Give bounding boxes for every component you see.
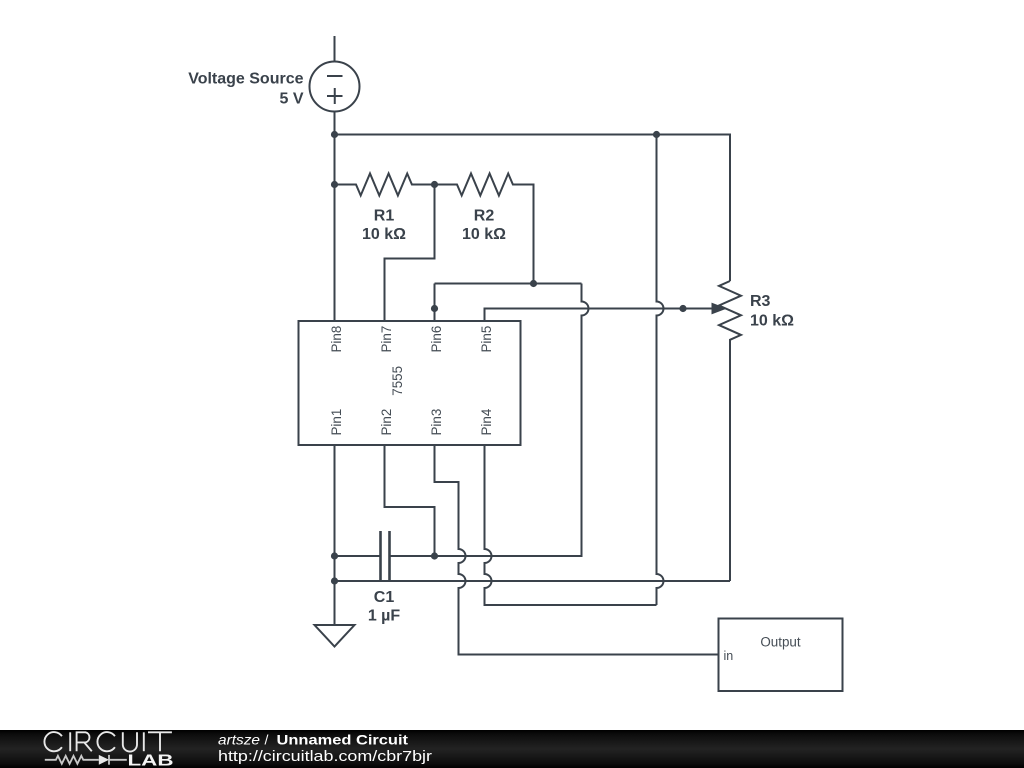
svg-text:artsze: artsze bbox=[218, 732, 260, 748]
svg-text:/: / bbox=[265, 732, 269, 748]
svg-text:Unnamed Circuit: Unnamed Circuit bbox=[277, 732, 409, 748]
svg-text:Pin8: Pin8 bbox=[329, 326, 344, 353]
svg-text:Pin6: Pin6 bbox=[429, 326, 444, 353]
svg-text:Pin7: Pin7 bbox=[379, 326, 394, 353]
svg-text:1 µF: 1 µF bbox=[368, 608, 401, 625]
svg-text:Voltage Source: Voltage Source bbox=[188, 71, 303, 88]
svg-text:R3: R3 bbox=[750, 293, 771, 310]
svg-text:7555: 7555 bbox=[390, 366, 405, 396]
svg-text:Pin4: Pin4 bbox=[479, 408, 494, 435]
svg-text:10 kΩ: 10 kΩ bbox=[462, 226, 506, 243]
svg-text:10 kΩ: 10 kΩ bbox=[362, 226, 406, 243]
svg-text:Output: Output bbox=[760, 635, 800, 650]
svg-text:LAB: LAB bbox=[128, 753, 174, 768]
svg-text:R2: R2 bbox=[474, 208, 495, 225]
svg-text:in: in bbox=[724, 649, 734, 663]
svg-text:Pin5: Pin5 bbox=[479, 326, 494, 353]
svg-text:R1: R1 bbox=[374, 208, 395, 225]
svg-text:5 V: 5 V bbox=[279, 90, 303, 107]
svg-text:10 kΩ: 10 kΩ bbox=[750, 313, 794, 330]
svg-text:Pin1: Pin1 bbox=[329, 409, 344, 436]
svg-text:Pin3: Pin3 bbox=[429, 409, 444, 436]
svg-text:Pin2: Pin2 bbox=[379, 409, 394, 436]
svg-text:http://circuitlab.com/cbr7bjr: http://circuitlab.com/cbr7bjr bbox=[218, 749, 432, 765]
svg-text:C1: C1 bbox=[374, 589, 395, 606]
